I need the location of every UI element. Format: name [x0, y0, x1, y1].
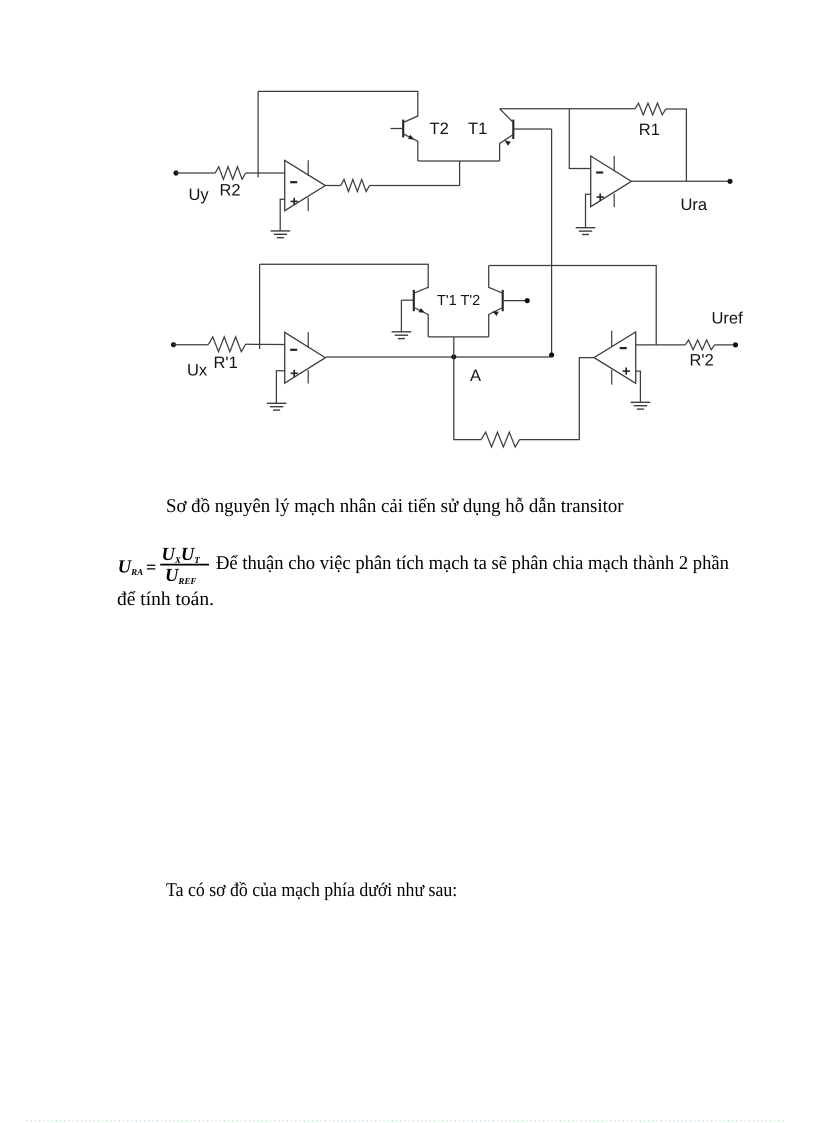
- svg-text:R2: R2: [220, 182, 241, 200]
- svg-text:UXUT: UXUT: [162, 545, 201, 565]
- svg-text:R1: R1: [639, 121, 660, 139]
- svg-text:UREF: UREF: [165, 566, 196, 586]
- svg-text:=: =: [146, 557, 156, 577]
- svg-text:Ura: Ura: [681, 196, 708, 214]
- svg-text:A: A: [470, 367, 481, 385]
- svg-text:T2: T2: [430, 120, 449, 138]
- svg-text:T1: T1: [468, 120, 487, 138]
- svg-text:Ux: Ux: [187, 361, 208, 379]
- svg-text:R'2: R'2: [690, 352, 714, 370]
- svg-text:Uy: Uy: [189, 186, 210, 204]
- svg-text:URA: URA: [118, 558, 143, 578]
- svg-text:T'1 T'2: T'1 T'2: [437, 293, 480, 309]
- svg-text:Uref: Uref: [712, 310, 744, 328]
- svg-text:R'1: R'1: [214, 354, 238, 372]
